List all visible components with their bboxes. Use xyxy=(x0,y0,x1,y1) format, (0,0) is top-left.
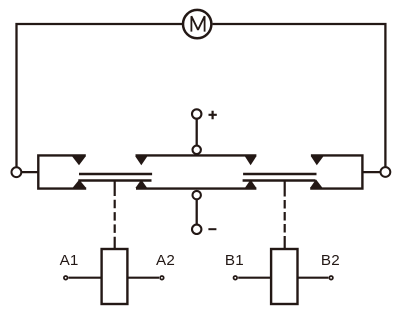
wire: B1 terminal to coil B xyxy=(238,277,271,279)
movable blade: right changeover contact xyxy=(243,174,317,181)
wire: A1 terminal to coil A xyxy=(69,277,102,279)
wire: left terminal to left block xyxy=(21,171,38,173)
svg-text:B2: B2 xyxy=(321,252,340,269)
wire: right branch of motor loop xyxy=(213,24,386,167)
movable blade: left changeover contact xyxy=(78,174,152,181)
wire: - bus bar (bottom) xyxy=(136,187,256,189)
actuator link: coil B to right blade (dashed) xyxy=(284,181,286,250)
fixed contact: right block NO (down triangle) xyxy=(311,156,324,165)
terminal: left motor lead xyxy=(12,167,22,177)
motor M1 xyxy=(183,10,211,38)
terminal B1 xyxy=(234,276,238,280)
fixed contact: - bus left (up triangle) xyxy=(135,180,147,188)
wire: coil B to B2 terminal xyxy=(298,277,329,279)
fixed contact: - bus right (up triangle) xyxy=(245,180,257,188)
terminal A2 xyxy=(160,276,164,280)
terminal A1 xyxy=(64,276,68,280)
fixed contact: left block NC (up triangle) xyxy=(72,180,86,188)
fixed contact: + bus right (down triangle) xyxy=(245,156,257,165)
terminal: + supply xyxy=(192,109,201,118)
svg-text:B1: B1 xyxy=(225,252,244,269)
wire: left branch of motor loop xyxy=(17,24,183,167)
svg-text:A1: A1 xyxy=(60,252,79,269)
svg-text:A2: A2 xyxy=(156,252,175,269)
terminal B2 xyxy=(329,276,333,280)
wire: + terminal to top node xyxy=(196,119,198,146)
actuator link: coil A to left blade (dashed) xyxy=(114,181,116,250)
label: - sign xyxy=(208,228,216,230)
node: top junction on + bus xyxy=(193,146,201,154)
wire: bottom node to - terminal xyxy=(196,200,198,225)
node: bottom junction on - bus xyxy=(193,191,201,199)
wire: right block to right terminal xyxy=(362,171,380,173)
wire: coil A to A2 terminal xyxy=(127,277,159,279)
fixed contact: left block NO (down triangle) xyxy=(72,156,86,165)
terminal: right motor lead xyxy=(381,167,391,177)
coil A xyxy=(102,249,128,304)
wire: + bus bar (top) xyxy=(136,154,257,156)
label: + sign xyxy=(209,111,217,119)
coil B xyxy=(271,249,297,304)
contact block: right outer (to right motor terminal) xyxy=(310,155,362,188)
contact block: left outer (to left motor terminal) xyxy=(38,155,86,188)
fixed contact: right block NC (up triangle) xyxy=(310,179,323,188)
fixed contact: + bus left (down triangle) xyxy=(135,156,147,165)
terminal: - supply xyxy=(192,225,201,234)
